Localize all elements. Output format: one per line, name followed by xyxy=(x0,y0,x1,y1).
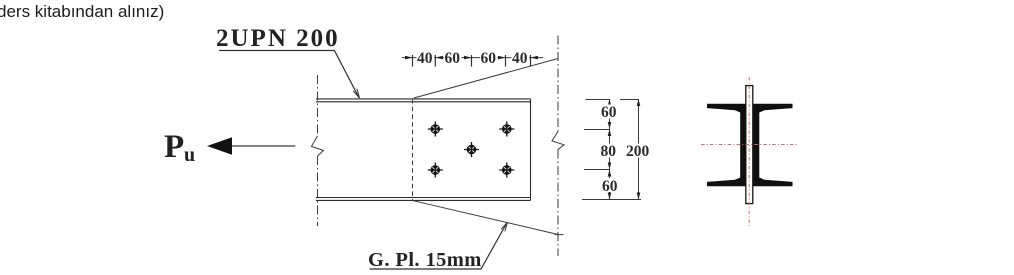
member bottom edge (double line) xyxy=(316,197,531,199)
dim text 60 xyxy=(480,50,498,67)
cross-section: left channel (UPN web+flanges) xyxy=(707,104,747,187)
dim text 60 xyxy=(444,50,462,67)
arrows on 200 line xyxy=(637,99,641,106)
arrows on 60/80/60 line xyxy=(608,99,612,106)
svg-text:u: u xyxy=(184,144,195,166)
bolt B1 (top-left) xyxy=(428,122,443,137)
svg-text:60: 60 xyxy=(602,178,618,195)
svg-text:80: 80 xyxy=(601,143,617,160)
right dim vertical (200) xyxy=(638,99,640,200)
leader underline for G. Pl. 15mm xyxy=(370,224,507,270)
break squiggle on right centerline xyxy=(552,132,564,150)
member right end xyxy=(530,99,532,200)
left centerline (dash-dot) xyxy=(317,75,319,136)
right dim vertical (60/80/60) xyxy=(609,99,611,200)
svg-text:40: 40 xyxy=(417,50,433,67)
bolt B2 (top-right) xyxy=(499,122,514,137)
break squiggle on left centerline xyxy=(312,136,324,156)
right dims: extension lines xyxy=(586,99,610,101)
svg-text:60: 60 xyxy=(601,104,617,121)
load arrowhead (solid) xyxy=(207,137,232,155)
member top edge (double line) xyxy=(316,98,531,100)
dim text 200 xyxy=(626,143,653,160)
top dimension ticks xyxy=(412,55,414,67)
dim text 40 xyxy=(417,50,435,67)
gusset plate top edge (diagonal) xyxy=(414,59,558,99)
red vertical centerline of section xyxy=(748,77,750,228)
cross-section: right channel (UPN web+flanges) xyxy=(752,104,793,187)
svg-text:60: 60 xyxy=(481,50,497,67)
load arrow line xyxy=(232,145,295,147)
dim text 60 (top) xyxy=(601,104,619,121)
svg-text:60: 60 xyxy=(445,50,461,67)
bolt B5 (bottom-right) xyxy=(499,163,514,178)
svg-text:40: 40 xyxy=(512,50,528,67)
svg-text:ders kitabından alınız): ders kitabından alınız) xyxy=(0,2,164,21)
svg-text:P: P xyxy=(164,129,184,165)
right centerline (dash-dot) xyxy=(557,36,559,132)
bolt B3 (center) xyxy=(464,142,479,157)
svg-text:2UPN 200: 2UPN 200 xyxy=(216,25,340,52)
dim text 40 xyxy=(512,50,530,67)
dim text 80 xyxy=(600,143,618,160)
red horizontal centerline of section xyxy=(701,144,798,146)
cross-section: gusset plate (white strip) xyxy=(746,86,753,204)
leader arrowhead (open) at gusset edge xyxy=(501,222,507,231)
svg-text:200: 200 xyxy=(626,143,650,160)
dim text 60 (bottom) xyxy=(602,178,620,195)
leader underline for 2UPN 200 xyxy=(219,51,359,98)
tick at end of bottom gusset edge xyxy=(555,234,564,236)
hidden gusset edge (dashed vertical) xyxy=(412,99,414,200)
gusset plate bottom edge (diagonal) xyxy=(414,201,559,235)
bolt B4 (bottom-left) xyxy=(428,163,443,178)
leader arrowhead at member top flange xyxy=(353,89,359,98)
svg-text:G. Pl. 15mm: G. Pl. 15mm xyxy=(368,249,482,271)
top dimension line xyxy=(402,57,543,59)
top dimension arrows xyxy=(405,56,413,60)
